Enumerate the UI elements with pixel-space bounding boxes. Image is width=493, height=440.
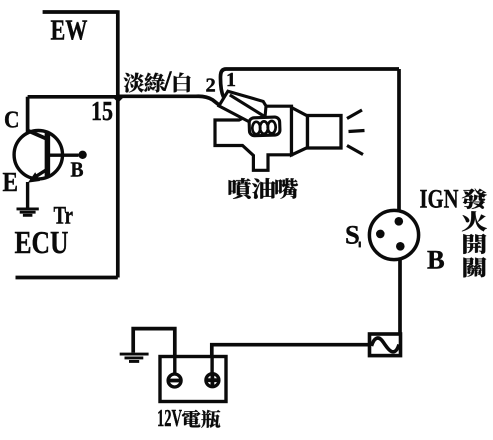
svg-text:S: S bbox=[345, 220, 360, 250]
svg-text:1: 1 bbox=[226, 69, 236, 91]
svg-text:IGN: IGN bbox=[420, 184, 459, 214]
svg-text:2: 2 bbox=[206, 75, 216, 97]
svg-text:B: B bbox=[427, 245, 445, 275]
svg-text:C: C bbox=[4, 108, 20, 134]
svg-text:/: / bbox=[163, 67, 173, 98]
svg-text:ECU: ECU bbox=[15, 225, 69, 260]
svg-text:EW: EW bbox=[51, 15, 88, 47]
svg-text:E: E bbox=[3, 166, 19, 197]
svg-text:12V: 12V bbox=[157, 406, 182, 432]
svg-text:15: 15 bbox=[91, 95, 113, 126]
svg-text:B: B bbox=[71, 158, 84, 182]
